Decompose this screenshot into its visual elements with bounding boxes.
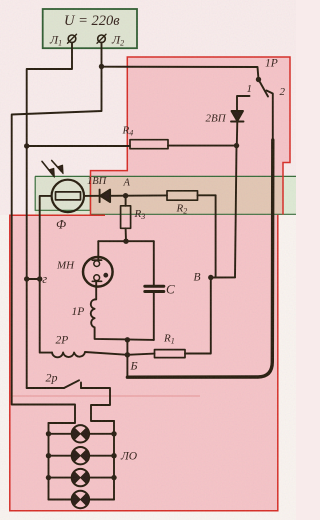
lamp LO 2 [72,447,90,464]
red border of top-right pink region [91,57,291,215]
lamp L3 stubs [49,477,115,479]
wire: node A down to R3 [125,196,127,206]
wire: bus junction down [126,340,128,355]
node dot diode 2VP junction [234,143,239,148]
capacitor C top plate [145,285,164,288]
wire: diode 2VP to junction [236,122,239,146]
lamp ladder left rail [48,423,50,500]
wire: C top lead [153,241,155,285]
wire: MN bottom lead to 1P coil [95,281,97,299]
lamp L1 stubs [49,433,115,435]
wire: junction down to B bridge [235,146,237,278]
node dot 1P switch pivot [256,77,261,82]
wire: C bottom lead to coil bus [153,293,155,340]
green band fill olive over pink [91,177,284,214]
neon lamp MN top electrode bar [92,259,101,261]
wire: R4 branch from left vertical [27,145,130,147]
diode 1VP cathode bar [99,190,101,203]
resistor R1 [155,350,186,358]
wire: node horizontal MN-top to C-top [98,240,154,242]
wire: terminal L1 down, left, long left vertical to 2P switch [27,43,72,388]
resistor R3 [121,206,131,229]
inductor 1P coil [91,299,95,327]
lamp ladder right rail [113,421,115,500]
wire: B node down to R1 right [185,278,211,354]
wire: g node bridge [27,278,40,280]
lamp LO 3 [72,469,90,486]
wire: photocell right to diode 1VP [84,195,100,197]
node dot bus lower (B label node) [125,352,130,357]
photocell green box border [35,176,90,210]
green band bottom border [90,213,296,215]
wire: R4 to diode junction [168,145,237,147]
neon lamp MN gas dot [103,273,108,278]
neon lamp MN top electrode circle [94,261,100,267]
neon lamp MN bottom electrode circle [94,275,100,281]
wire: terminal L2 down to node [101,43,103,67]
lamp L4 stubs [49,499,115,501]
terminal L2 slash [97,34,106,43]
bottom white margin strip [0,512,296,520]
pink highlight region main (fill) [10,215,278,511]
switch 2P feed line [27,387,64,389]
light arrow 1 [42,161,53,174]
wire: R2 right end down to B bridge [215,195,217,277]
node dot B [208,275,213,280]
lamp LO 4 [72,491,90,508]
switch 1P contact 2 hook [267,91,273,142]
left white margin strip [0,215,9,520]
switch 1P pivot blade [259,80,269,97]
node dot A [123,193,128,198]
light arrow 2 [52,161,62,172]
light arrow 2 head [58,165,63,174]
wire: R3 down to C/MN node [125,228,127,241]
switch 2P contact tick [80,383,82,389]
thick wire: contact 2 down to bottom and left to B node (B-bus) [127,140,272,377]
red border of main pink region [10,215,278,511]
photocell green box fill [35,177,90,210]
lamp LO 1 [72,425,90,442]
switch 2P blade [64,380,79,388]
wire: B junction down to thick bottom bus [126,355,128,377]
wire: node A to R2 [126,194,167,196]
wire: photocell left lead down to g node and 2P coil [40,196,52,353]
resistor R2 [167,191,198,200]
node dot g left [24,276,29,281]
rail dots left [46,431,51,436]
node dot R3/C/MN [123,239,128,244]
right white margin strip [279,215,296,512]
rail dots right [111,431,116,436]
green band top border [35,175,296,177]
node dot bus upper [125,337,130,342]
diode 2VP triangle [232,111,244,121]
diode 1VP triangle [100,190,110,203]
resistor R4 [130,140,168,149]
wire: L2 node down, slant left, long left-edge vertical to lamp feed [12,67,102,424]
U=220V green box [43,9,137,48]
photocell F outer circle [52,180,84,212]
wire: R1 left to B junction bus [127,354,154,355]
node dot L2 top [99,64,104,69]
wire: down to MN top electrode [97,241,99,260]
pink highlight region top-right (fill) [91,57,291,215]
terminal L1 circle [68,35,76,43]
wire: diode 1VP to node A [110,195,126,197]
green band fill under photocell box [35,210,91,214]
terminal L2 circle [98,35,106,43]
node dot g right [37,276,42,281]
red divider line of lamp pink region [10,395,201,397]
wire: 1P coil bottom to bus [95,327,154,340]
wire: R2 to right corner [198,194,216,196]
lamp L2 stubs [49,455,115,457]
neon lamp MN bottom electrode bar [92,280,101,282]
inductor 2P coil [52,352,85,357]
wire: 2P coil to B bus [85,352,127,355]
light arrow 1 head [49,168,55,177]
wire: B-node bridge horizontal [211,276,235,278]
diode 2VP cathode bar [231,121,244,123]
terminal L1 slash [68,34,77,43]
neon lamp MN circle [83,257,113,287]
node dot R4 left [24,143,29,148]
wire: node to 1P switch (top feed) [102,67,259,80]
capacitor C bottom plate [145,290,164,293]
photocell F resistor body [56,192,81,200]
green band fill right over paper [283,177,296,214]
switch 1P contact 1 [237,96,250,111]
wire: 2P switch to right lamp feed [81,388,114,421]
